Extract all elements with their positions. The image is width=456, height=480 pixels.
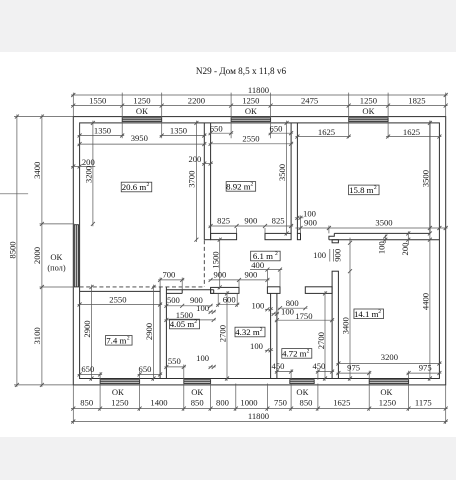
room label 8.92 bbox=[226, 182, 256, 192]
dimension 450/450 room 4.72 bottom bbox=[275, 371, 293, 373]
dimension 600 room 4.32 door bbox=[216, 304, 239, 306]
svg-text:100: 100 bbox=[377, 241, 387, 254]
window OK (floor) left wall bbox=[74, 225, 78, 287]
svg-text:975: 975 bbox=[419, 362, 432, 372]
bottom gray band bbox=[0, 437, 456, 480]
svg-text:ОК: ОК bbox=[380, 387, 392, 397]
dimension 11800 top bbox=[71, 94, 448, 96]
wall between rooms 7.4 and 4.05 bbox=[159, 287, 161, 379]
svg-text:3500: 3500 bbox=[420, 170, 430, 187]
svg-text:975: 975 bbox=[347, 362, 360, 372]
svg-text:900: 900 bbox=[244, 270, 257, 280]
svg-text:750: 750 bbox=[274, 398, 287, 408]
exterior wall outer face bbox=[73, 117, 445, 385]
svg-text:ОК: ОК bbox=[191, 387, 203, 397]
extension lines left bbox=[14, 116, 73, 118]
dimension 2900 room 7.4 right bbox=[153, 285, 155, 381]
partition wall between rooms 4.32 and 4.72 bbox=[270, 293, 272, 378]
dimension 200 left wall thickness bbox=[71, 165, 95, 167]
svg-text:850: 850 bbox=[80, 398, 93, 408]
svg-text:1350: 1350 bbox=[170, 126, 187, 136]
room 4.05 top wall with door opening bbox=[166, 289, 213, 291]
window OK bottom-4 bbox=[369, 380, 408, 384]
svg-text:2: 2 bbox=[260, 327, 263, 333]
exterior wall inner face bbox=[80, 123, 440, 379]
svg-text:850: 850 bbox=[191, 398, 204, 408]
dimension 2700 room 4.72 height bbox=[324, 291, 326, 381]
window OK bottom-2 bbox=[184, 380, 211, 384]
dimension 900 door and 3400 wall W5 bbox=[349, 238, 351, 381]
svg-text:ОК: ОК bbox=[112, 387, 124, 397]
dimension row 1350/1350/650/650/1625/1625 bbox=[78, 135, 125, 137]
svg-text:20.6 m: 20.6 m bbox=[122, 182, 147, 192]
dimension 100 stub at 15.8 door bbox=[295, 217, 304, 219]
dimension 200 wall W4 thickness bbox=[407, 231, 409, 245]
dimension 1500 room 4.05 overall bbox=[164, 319, 215, 321]
svg-text:900: 900 bbox=[333, 249, 343, 262]
svg-text:N29 - Дом 8,5 х 11,8 v6: N29 - Дом 8,5 х 11,8 v6 bbox=[196, 66, 287, 76]
svg-text:2: 2 bbox=[275, 251, 278, 257]
svg-text:4.32 m: 4.32 m bbox=[235, 327, 260, 337]
dimension 100 partition bbox=[272, 313, 279, 315]
room 7.4 top partition line bbox=[80, 290, 161, 292]
svg-text:2000: 2000 bbox=[32, 247, 42, 264]
svg-text:(пол): (пол) bbox=[47, 263, 66, 272]
svg-text:200: 200 bbox=[400, 243, 410, 256]
svg-text:2475: 2475 bbox=[301, 96, 318, 106]
extension lines top bbox=[72, 93, 74, 117]
dimension 650/650 room 7.4 bottom bbox=[78, 373, 103, 375]
svg-text:1625: 1625 bbox=[318, 127, 335, 137]
svg-text:2700: 2700 bbox=[218, 325, 228, 342]
partition piece over room 4.32 left bbox=[211, 287, 239, 293]
dimension 2900 room 7.4 left bbox=[91, 285, 93, 381]
svg-text:450: 450 bbox=[312, 361, 325, 371]
svg-text:4.05 m: 4.05 m bbox=[170, 319, 195, 329]
svg-text:3500: 3500 bbox=[375, 217, 392, 227]
stray scan line left edge bbox=[0, 193, 28, 195]
svg-text:4400: 4400 bbox=[421, 293, 431, 310]
svg-text:8.92 m: 8.92 m bbox=[226, 181, 251, 191]
wall W1 between rooms 20.6 and 8.92 bbox=[203, 123, 205, 240]
svg-text:450: 450 bbox=[272, 361, 285, 371]
svg-text:1500: 1500 bbox=[211, 251, 221, 268]
svg-text:1250: 1250 bbox=[111, 398, 128, 408]
window OK bottom-3 bbox=[290, 380, 314, 384]
svg-text:4.72 m: 4.72 m bbox=[282, 348, 307, 358]
room label 20.6 bbox=[121, 182, 152, 192]
dimension 3950 room 20.6 width bbox=[78, 143, 207, 145]
dimension 1750 room 4.72 width bbox=[275, 319, 334, 321]
wall W2 right stub (room 8.92 south wall) bbox=[265, 233, 291, 239]
svg-text:100: 100 bbox=[196, 303, 209, 313]
window OK bottom-1 bbox=[100, 380, 140, 384]
dimension 100 door stub 14.1 bbox=[329, 249, 331, 262]
svg-text:3950: 3950 bbox=[131, 133, 148, 143]
wall W2 left stub (room 8.92 south wall) bbox=[211, 233, 237, 239]
dimension 500/900 room 4.05 door bbox=[164, 305, 212, 307]
window OK top-1 bbox=[122, 118, 162, 122]
svg-text:1250: 1250 bbox=[379, 398, 396, 408]
partition T piece over wall 4.32/4.72 bbox=[267, 287, 280, 294]
dimension 3700 wall W1 height bbox=[195, 121, 197, 242]
dimension 900/3500/500 along wall W4 bbox=[295, 227, 447, 229]
svg-text:ОК: ОК bbox=[136, 106, 148, 116]
dimension 550/100 room 4.05 bottom bbox=[164, 366, 185, 368]
svg-text:11800: 11800 bbox=[248, 85, 269, 95]
dimension 3500 room 8.92 height bbox=[286, 121, 288, 236]
svg-text:900: 900 bbox=[304, 217, 317, 227]
svg-text:2550: 2550 bbox=[242, 134, 259, 144]
dimension 100 partition bbox=[209, 311, 216, 313]
dimension 3200 to window sill bbox=[92, 121, 94, 227]
wall W4 stub at room 15.8 door bbox=[297, 233, 300, 239]
svg-text:1625: 1625 bbox=[333, 398, 350, 408]
svg-text:100: 100 bbox=[281, 306, 294, 316]
svg-text:825: 825 bbox=[272, 216, 285, 226]
svg-text:3200: 3200 bbox=[381, 352, 398, 362]
svg-text:2: 2 bbox=[307, 349, 310, 355]
dimension 2700 room 4.32 height bbox=[226, 291, 228, 381]
svg-text:11800: 11800 bbox=[248, 411, 269, 421]
svg-text:200: 200 bbox=[82, 157, 95, 167]
svg-text:1550: 1550 bbox=[89, 96, 106, 106]
svg-text:ОК: ОК bbox=[50, 252, 62, 262]
svg-text:3100: 3100 bbox=[32, 327, 42, 344]
svg-text:1750: 1750 bbox=[295, 311, 312, 321]
svg-text:3200: 3200 bbox=[83, 166, 93, 183]
svg-text:1400: 1400 bbox=[150, 398, 167, 408]
svg-text:2900: 2900 bbox=[144, 323, 154, 340]
svg-text:3400: 3400 bbox=[32, 162, 42, 179]
dimension 975/975 room 14.1 bottom bbox=[336, 372, 371, 374]
dimension row 825/900/825 room 8.92 door bbox=[209, 225, 294, 227]
dimension 3200 room 14.1 width bbox=[336, 363, 441, 365]
svg-text:850: 850 bbox=[300, 398, 313, 408]
svg-text:15.8 m: 15.8 m bbox=[349, 185, 374, 195]
svg-text:100: 100 bbox=[313, 250, 326, 260]
svg-text:1625: 1625 bbox=[403, 127, 420, 137]
dimension 700 corridor bbox=[158, 279, 184, 281]
svg-text:3500: 3500 bbox=[277, 164, 287, 181]
dimension chain bottom bbox=[71, 408, 448, 410]
svg-text:600: 600 bbox=[223, 295, 236, 305]
svg-text:2: 2 bbox=[378, 309, 381, 315]
wall W4 main (south wall of room 15.8) bbox=[334, 232, 430, 234]
svg-text:6.1 m: 6.1 m bbox=[253, 251, 273, 261]
svg-text:650: 650 bbox=[270, 124, 283, 134]
svg-text:2: 2 bbox=[147, 182, 150, 188]
svg-text:500: 500 bbox=[167, 295, 180, 305]
svg-text:1250: 1250 bbox=[360, 96, 377, 106]
svg-text:2550: 2550 bbox=[109, 294, 126, 304]
partition piece over room 4.72 right bbox=[305, 287, 332, 294]
wall W5 between hall and room 14.1 with door stub bbox=[332, 240, 338, 243]
svg-text:1250: 1250 bbox=[242, 96, 259, 106]
svg-text:825: 825 bbox=[217, 216, 230, 226]
svg-text:2: 2 bbox=[374, 185, 377, 191]
svg-text:650: 650 bbox=[139, 364, 152, 374]
room label 6.1 bbox=[251, 251, 281, 261]
dimension 1500 hall height bbox=[219, 238, 221, 290]
svg-text:ОК: ОК bbox=[362, 106, 374, 116]
room label 7.4 bbox=[106, 336, 133, 346]
svg-text:2200: 2200 bbox=[188, 96, 205, 106]
svg-text:ОК: ОК bbox=[296, 387, 308, 397]
svg-text:7.4 m: 7.4 m bbox=[106, 335, 126, 345]
svg-text:650: 650 bbox=[81, 364, 94, 374]
dimension 2550 room 7.4 width bbox=[78, 304, 163, 306]
svg-text:ОК: ОК bbox=[245, 106, 257, 116]
room label 14.1 bbox=[354, 309, 384, 319]
svg-text:3700: 3700 bbox=[187, 171, 197, 188]
svg-text:100: 100 bbox=[251, 301, 264, 311]
wall W3 between rooms 8.92 and 15.8 bbox=[290, 123, 292, 233]
dimension chain top 1550/1250/2200/1250/2475/1250/1825 bbox=[71, 105, 448, 107]
room label 4.32 bbox=[235, 327, 265, 337]
svg-text:900: 900 bbox=[244, 216, 257, 226]
svg-text:14.1 m: 14.1 m bbox=[354, 309, 379, 319]
dashed boundary of room 20.6 right bbox=[203, 240, 205, 287]
dimension 11800 bottom bbox=[71, 421, 448, 423]
svg-text:100: 100 bbox=[250, 341, 263, 351]
room label 4.72 bbox=[282, 349, 312, 359]
dimension 8500 left bbox=[16, 114, 18, 387]
extension lines bottom bbox=[72, 385, 74, 424]
dimension 900/900 hall doors bbox=[209, 279, 270, 281]
svg-text:100: 100 bbox=[196, 353, 209, 363]
room label 15.8 bbox=[349, 185, 380, 195]
svg-text:650: 650 bbox=[210, 124, 223, 134]
dimension 400 hall bbox=[250, 269, 282, 271]
svg-text:2900: 2900 bbox=[82, 320, 92, 337]
svg-text:8500: 8500 bbox=[7, 241, 17, 258]
svg-text:700: 700 bbox=[162, 270, 175, 280]
svg-text:1250: 1250 bbox=[133, 96, 150, 106]
svg-text:200: 200 bbox=[188, 154, 201, 164]
svg-text:400: 400 bbox=[251, 260, 264, 270]
dimension 800 room 4.72 door bbox=[278, 307, 307, 309]
window OK top-3 bbox=[349, 118, 388, 122]
svg-text:1825: 1825 bbox=[408, 96, 425, 106]
room label 4.05 bbox=[170, 319, 200, 329]
svg-text:900: 900 bbox=[213, 270, 226, 280]
svg-text:800: 800 bbox=[216, 398, 229, 408]
svg-text:1175: 1175 bbox=[415, 398, 432, 408]
svg-text:1350: 1350 bbox=[94, 126, 111, 136]
dimension chain left 3400/2000/3100 bbox=[41, 114, 43, 387]
svg-text:2: 2 bbox=[127, 336, 130, 342]
window OK top-2 bbox=[231, 118, 271, 122]
dimension 200 wall W1 thickness bbox=[202, 163, 213, 165]
svg-text:1000: 1000 bbox=[240, 398, 257, 408]
svg-text:550: 550 bbox=[168, 356, 181, 366]
dimension 100 wall W4 lower layer bbox=[384, 235, 386, 243]
svg-text:2700: 2700 bbox=[316, 332, 326, 349]
dimension 100 partition bottom bbox=[265, 349, 273, 351]
dimension 100 partition top bbox=[265, 308, 273, 310]
top gray band bbox=[0, 0, 456, 52]
svg-text:2: 2 bbox=[250, 182, 253, 188]
dimension 3500 room 15.8 height and 4400 room 14.1 height bbox=[429, 121, 431, 381]
svg-text:2: 2 bbox=[194, 319, 197, 325]
svg-text:3400: 3400 bbox=[341, 317, 351, 334]
dimension 2550 room 8.92 width bbox=[209, 143, 294, 145]
dashed boundary of room 20.6 bottom bbox=[80, 286, 205, 288]
right wall upper inner face (500 thick section) bbox=[429, 121, 431, 234]
